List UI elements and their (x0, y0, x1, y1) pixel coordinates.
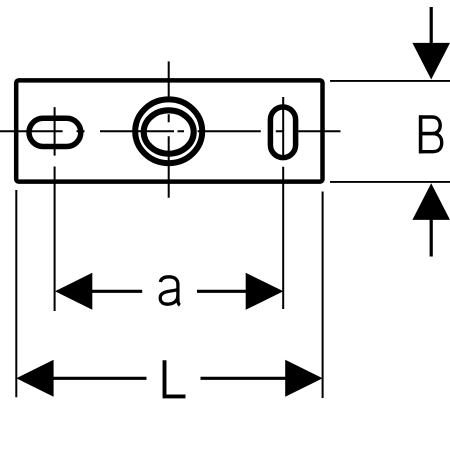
dimension a: left arrow (55, 273, 92, 310)
horizontal centreline (0, 130, 341, 132)
vertical centreline of left slot (54, 107, 56, 311)
dimension a: right arrow (246, 273, 284, 310)
extension line B bottom (330, 181, 450, 183)
plate outline (16, 80, 322, 181)
centre hole inner circle (144, 110, 194, 153)
extension line L left (15, 190, 17, 397)
dimension L: left arrow (16, 360, 53, 397)
label L (163, 360, 186, 396)
right slot (vertical obround hole) (270, 107, 295, 158)
vertical centreline of centre hole (168, 61, 170, 197)
extension line L right (322, 192, 324, 399)
dimension L: right arrow (285, 360, 322, 397)
extension line B top (330, 80, 450, 82)
left slot (horizontal obround hole) (29, 118, 81, 146)
dimension B: down arrow (430, 7, 433, 43)
centre hole outer circle (135, 99, 202, 163)
label B (419, 115, 442, 153)
label a (160, 277, 180, 305)
vertical centreline of right slot (282, 97, 284, 309)
dimension B: up arrow (412, 183, 450, 220)
